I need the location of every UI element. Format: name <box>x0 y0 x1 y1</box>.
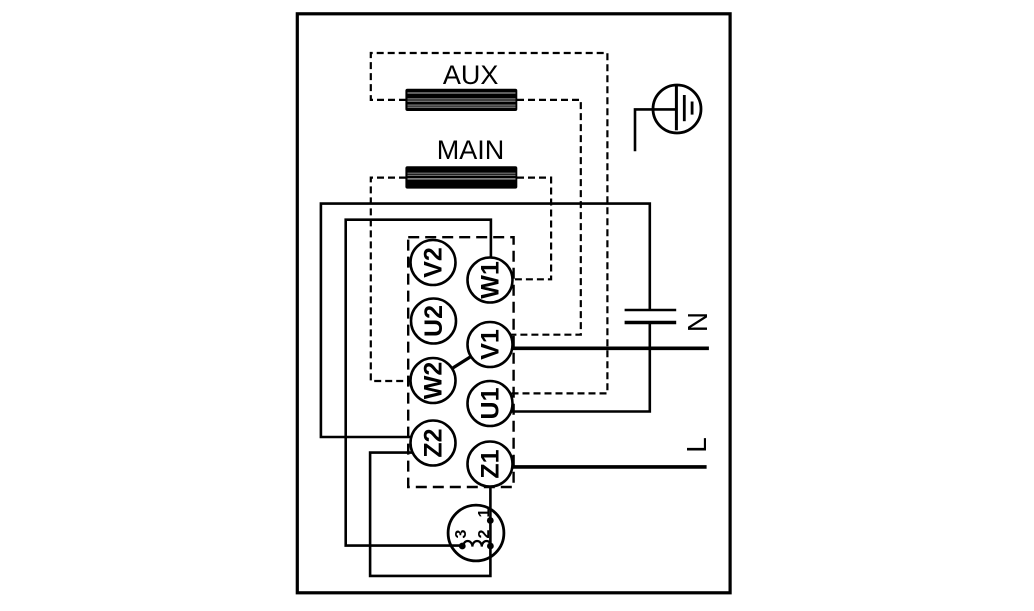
node N line <box>512 346 709 350</box>
capacitor C plates <box>625 309 677 312</box>
svg-text:U2: U2 <box>420 305 448 337</box>
switch contact dot 1 <box>487 517 494 524</box>
wire: capacitor bottom to U1 <box>511 324 650 412</box>
svg-text:1: 1 <box>476 508 493 517</box>
wire: Z1 through switch contacts to Z2 <box>370 453 490 576</box>
thermal switch body circle <box>448 505 504 561</box>
wire: W1 to switch terminal 3 <box>346 220 491 546</box>
svg-text:V1: V1 <box>477 329 505 360</box>
svg-text:AUX: AUX <box>443 60 499 90</box>
wire: AUX left lead to U1 (dashed) <box>371 53 608 393</box>
terminal Z1 <box>468 442 513 487</box>
svg-text:2: 2 <box>476 529 493 538</box>
wire: W2 to V1 link (diagonal) <box>433 345 490 381</box>
svg-text:3: 3 <box>453 529 470 538</box>
terminal box (dashed) <box>408 237 513 487</box>
ground symbol <box>635 85 701 151</box>
MAIN winding <box>405 166 517 188</box>
terminal V2 <box>411 240 456 285</box>
wire: MAIN right lead to W1 (dashed) <box>512 178 551 280</box>
svg-text:Z1: Z1 <box>477 449 505 478</box>
node L line <box>513 465 707 469</box>
svg-text:MAIN: MAIN <box>437 135 505 165</box>
terminal V1 <box>468 322 513 367</box>
terminal W2 <box>411 358 456 403</box>
AUX winding <box>405 89 517 111</box>
terminal Z2 <box>411 421 456 466</box>
terminal U1 <box>468 381 513 426</box>
terminal W1 <box>468 258 513 303</box>
wire: Z2 to capacitor top <box>321 204 650 437</box>
svg-text:V2: V2 <box>420 247 448 278</box>
switch contact dot 2 <box>487 543 494 550</box>
terminal U2 <box>411 299 456 344</box>
svg-text:L: L <box>681 437 712 453</box>
svg-text:N: N <box>682 312 713 332</box>
switch contact dot 3 <box>459 543 466 550</box>
wire: MAIN left lead to W2 (dashed) <box>371 178 410 381</box>
switch heater coil <box>463 541 491 547</box>
svg-text:U1: U1 <box>477 387 505 419</box>
wire: AUX right lead to V1 (dashed) <box>510 100 581 335</box>
enclosure border <box>297 14 730 593</box>
svg-text:Z2: Z2 <box>420 428 448 457</box>
svg-text:W1: W1 <box>477 261 505 299</box>
svg-text:W2: W2 <box>420 362 448 400</box>
